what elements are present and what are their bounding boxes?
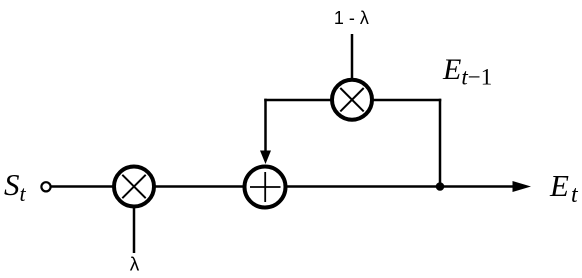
multiplier M1 (circle with X), gain lambda (114, 167, 154, 207)
wire: multiplier M1 to adder U1 (152, 185, 248, 188)
svg-text:1 - λ: 1 - λ (334, 8, 369, 28)
wire: adder output to E_t with arrowhead (282, 181, 531, 192)
wire: input terminal to multiplier M1 (50, 185, 116, 188)
svg-text:Et−1: Et−1 (442, 53, 492, 90)
multiplier M2 (circle with X), gain 1-lambda (332, 80, 372, 120)
adder U1 (circle with plus) (245, 167, 286, 208)
node: junction dot on output wire (436, 182, 445, 191)
wire: feedback top horizontal rail through multiplier M2 (264, 99, 441, 102)
wire: lambda stem below multiplier M1 (133, 205, 136, 253)
wire: (1 - lambda) stem above multiplier M2 (351, 34, 354, 82)
svg-text:St: St (4, 167, 27, 206)
input terminal: open circle at S_t (41, 182, 50, 191)
svg-text:Et: Et (549, 168, 579, 208)
wire: feedback vertical from junction up to top rail (439, 99, 442, 187)
svg-text:λ: λ (130, 255, 140, 276)
wire: feedback vertical down into adder with arrowhead (260, 99, 271, 164)
